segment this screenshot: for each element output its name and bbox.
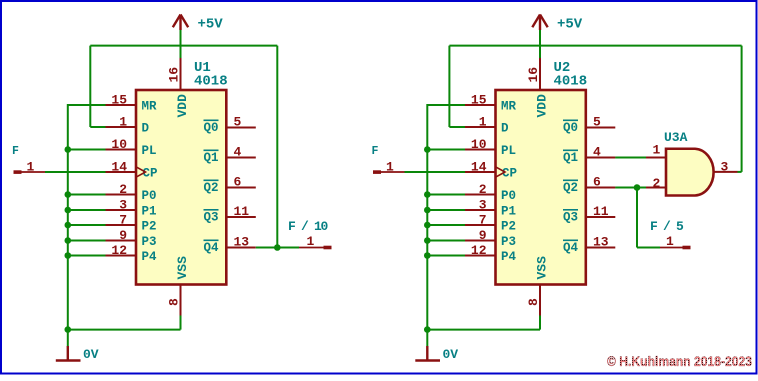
svg-text:14: 14 [111,160,127,175]
svg-text:4: 4 [234,145,242,160]
svg-text:1: 1 [119,115,127,130]
svg-text:4018: 4018 [554,74,588,90]
svg-text:VSS: VSS [175,256,190,280]
svg-text:1: 1 [307,234,315,249]
svg-text:D: D [142,121,150,135]
svg-text:P3: P3 [142,235,157,249]
svg-text:P1: P1 [142,204,157,218]
svg-text:© H.Kuhlmann 2018-2023: © H.Kuhlmann 2018-2023 [607,354,752,369]
svg-text:4018: 4018 [194,74,228,90]
svg-text:Q2: Q2 [563,181,578,195]
svg-text:12: 12 [471,243,487,258]
svg-text:Q3: Q3 [563,210,578,224]
svg-text:2: 2 [479,182,487,197]
svg-text:2: 2 [119,182,127,197]
svg-text:VDD: VDD [175,94,190,118]
svg-text:Q2: Q2 [203,181,218,195]
svg-text:16: 16 [167,67,182,83]
svg-text:Q0: Q0 [203,121,218,135]
svg-text:+5V: +5V [198,17,224,33]
svg-text:7: 7 [479,213,487,228]
svg-text:PL: PL [142,144,157,158]
svg-text:2: 2 [653,176,661,191]
svg-text:1: 1 [666,234,674,249]
svg-text:9: 9 [119,228,127,243]
svg-text:16: 16 [526,67,541,83]
svg-text:10: 10 [111,137,127,152]
svg-text:MR: MR [501,99,517,113]
svg-text:Q4: Q4 [563,241,579,255]
svg-text:+5V: +5V [557,17,583,33]
svg-text:10: 10 [471,137,487,152]
svg-text:5: 5 [234,115,242,130]
svg-text:8: 8 [167,298,182,306]
svg-text:D: D [501,121,509,135]
svg-text:5: 5 [593,115,601,130]
svg-text:6: 6 [234,175,242,190]
svg-text:11: 11 [234,204,250,219]
svg-text:F / 5: F / 5 [650,219,684,234]
svg-text:U3A: U3A [664,130,688,145]
svg-text:PL: PL [501,144,516,158]
svg-text:0V: 0V [83,347,99,362]
svg-text:P4: P4 [501,250,517,264]
svg-text:15: 15 [471,93,487,108]
svg-text:Q1: Q1 [203,151,218,165]
svg-text:7: 7 [119,213,127,228]
svg-text:MR: MR [142,99,158,113]
svg-text:9: 9 [479,228,487,243]
svg-text:P0: P0 [142,189,157,203]
svg-text:1: 1 [479,115,487,130]
svg-text:Q3: Q3 [203,210,218,224]
svg-text:Q0: Q0 [563,121,578,135]
svg-text:1: 1 [653,143,661,158]
svg-text:F: F [372,145,379,158]
svg-text:P4: P4 [142,250,158,264]
svg-text:11: 11 [593,204,609,219]
svg-text:Q4: Q4 [203,241,219,255]
svg-text:VDD: VDD [535,94,550,118]
svg-text:0V: 0V [443,347,459,362]
svg-text:3: 3 [479,198,487,213]
svg-text:F: F [12,145,19,158]
svg-text:3: 3 [119,198,127,213]
svg-text:P2: P2 [142,219,157,233]
svg-text:P1: P1 [501,204,516,218]
svg-text:1: 1 [27,160,35,175]
svg-text:15: 15 [111,93,127,108]
svg-text:F / 10: F / 10 [288,219,329,234]
svg-text:P0: P0 [501,189,516,203]
svg-text:P3: P3 [501,235,516,249]
svg-text:8: 8 [526,298,541,306]
svg-text:14: 14 [471,160,487,175]
svg-text:1: 1 [386,160,394,175]
svg-text:3: 3 [721,160,729,175]
svg-text:Q1: Q1 [563,151,578,165]
svg-text:13: 13 [234,235,250,250]
svg-text:13: 13 [593,235,609,250]
svg-text:12: 12 [111,243,127,258]
svg-text:P2: P2 [501,219,516,233]
svg-text:VSS: VSS [535,256,550,280]
